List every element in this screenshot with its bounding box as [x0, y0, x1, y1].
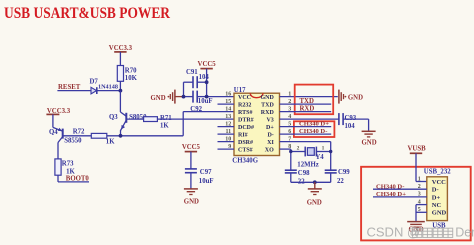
svg-text:RESET: RESET [58, 84, 81, 91]
capacitor C92 10uF [184, 91, 213, 113]
capacitor C93 104 [339, 113, 357, 130]
svg-text:USB_232: USB_232 [424, 169, 451, 176]
wire pin5 D+ [280, 126, 332, 128]
wire pins 4-5 to gnd [415, 205, 417, 222]
wire node to Q3 collector [119, 91, 121, 112]
wire VUSB to pin1 [415, 153, 417, 181]
svg-text:14: 14 [225, 106, 231, 112]
U17 pin 11 RI# (left) [218, 129, 248, 139]
svg-text:D-: D- [267, 132, 273, 138]
svg-text:RXD: RXD [261, 110, 275, 116]
power VCC3.3 (top) [109, 45, 133, 52]
transistor Q3 S8050 [109, 112, 147, 136]
svg-text:RI#: RI# [238, 132, 248, 138]
svg-text:CH340 D-: CH340 D- [299, 128, 327, 135]
svg-text:GND: GND [362, 140, 377, 147]
U17 pin 8 XO (right) [265, 144, 292, 154]
ground (crystal) [307, 182, 322, 206]
svg-text:1K: 1K [66, 168, 75, 175]
wire R71 to U17 pin13 DTR# [157, 118, 234, 120]
svg-text:VCC: VCC [238, 95, 251, 101]
svg-text:XO: XO [265, 147, 274, 153]
wire pin7 XI to crystal right [280, 141, 331, 143]
connector pin 2 D- [418, 184, 439, 194]
wire left rail C91-C92 [183, 82, 185, 96]
svg-text:DSR#: DSR# [238, 140, 253, 146]
svg-text:12MHz: 12MHz [297, 162, 319, 169]
resistor R73 [55, 159, 76, 176]
wire RESET to D7 [57, 90, 90, 92]
U17 pin 15 R232 (left) [218, 99, 252, 109]
crystal Y4 12MHz [291, 145, 331, 168]
svg-text:CTS#: CTS# [238, 147, 253, 153]
wire VCC3.3 to Q4 emitter [52, 114, 54, 127]
svg-text:V3: V3 [266, 117, 273, 123]
wire pin16 VCC [207, 96, 234, 98]
svg-text:USB USART&USB POWER: USB USART&USB POWER [4, 5, 171, 22]
svg-text:VCC5: VCC5 [198, 61, 217, 68]
ground port (pin1) [339, 90, 363, 104]
svg-text:RXD: RXD [300, 106, 315, 113]
U17 pin 13 DTR# (left) [225, 114, 253, 124]
ground (C93) [362, 131, 377, 146]
junction crystal right [329, 150, 332, 153]
highlight box USB [361, 167, 471, 241]
junction Q3 emitter / R72 / RTS# [119, 134, 123, 138]
svg-text:D-: D- [432, 187, 439, 194]
wire pin4 V3 to C93 [280, 118, 339, 120]
resistor R70 [117, 66, 137, 82]
wire pin6 D- [280, 133, 332, 135]
connector pin 5 GND [416, 207, 447, 217]
svg-text:CH340 D+: CH340 D+ [376, 191, 406, 198]
highlight box TXD/RXD [295, 85, 334, 115]
svg-text:CH340 D+: CH340 D+ [299, 121, 329, 128]
svg-text:Y4: Y4 [315, 154, 324, 161]
U17 pin 12 DCD# (left) [218, 121, 255, 131]
capacitor C99 22 [325, 169, 351, 185]
svg-text:DTR#: DTR# [238, 117, 254, 123]
svg-text:104: 104 [345, 123, 356, 130]
svg-text:C99: C99 [338, 169, 350, 176]
wire C93 to GND [343, 118, 369, 120]
wire R70 to node [119, 81, 121, 90]
U17 pin 10 DSR# (left) [218, 136, 254, 146]
resistor R72 [73, 129, 115, 146]
wire pin2 CH340 D- [373, 188, 427, 190]
wire pin3 CH340 D+ [373, 196, 427, 198]
U17 pin 3 RXD (right) [261, 106, 292, 116]
svg-text:Q3: Q3 [109, 114, 118, 121]
svg-text:TXD: TXD [261, 102, 274, 108]
svg-text:10K: 10K [125, 75, 138, 82]
U17 pin 7 XI (right) [267, 136, 291, 146]
junction C92/rail/pin16 [205, 95, 209, 99]
junction C91/rail [205, 80, 209, 84]
wire pin3 RXD [280, 111, 332, 113]
svg-text:1K: 1K [106, 139, 115, 146]
power VCC3.3 (Q4) [46, 108, 70, 115]
wire C97 to gnd [190, 173, 192, 189]
svg-text:U17: U17 [234, 87, 246, 94]
svg-text:13: 13 [225, 114, 231, 120]
svg-text:R232: R232 [238, 102, 251, 108]
ground (USB shell) [407, 222, 425, 234]
U17 pin 9 CTS# (left) [218, 144, 253, 154]
capacitor C98 22 [285, 170, 310, 186]
svg-text:1: 1 [322, 145, 325, 151]
svg-text:R72: R72 [73, 129, 85, 136]
junction gnd rail [313, 180, 317, 184]
watermark CSDN [367, 225, 474, 240]
svg-text:CH340 D-: CH340 D- [376, 183, 404, 190]
connector pin 1 VCC [418, 176, 446, 186]
svg-text:GND: GND [307, 199, 322, 206]
wire Q3 base to R71 [126, 118, 143, 120]
svg-text:1N4148: 1N4148 [98, 84, 118, 91]
wires caps to gnd rail [290, 173, 292, 182]
highlight box CH340 D+/D- [294, 121, 335, 137]
svg-text:GND: GND [432, 210, 447, 217]
U17 pin 2 TXD (right) [261, 99, 291, 109]
connector pin 3 D+ [418, 192, 441, 202]
wire VCC3.3 to R70 [119, 52, 121, 66]
svg-text:GND: GND [184, 198, 199, 205]
junction crystal left [289, 150, 292, 153]
resistor R71 [144, 115, 173, 129]
svg-text:10uF: 10uF [198, 98, 213, 105]
svg-text:10uF: 10uF [199, 178, 214, 185]
svg-text:RTS#: RTS# [238, 110, 252, 116]
svg-text:GND: GND [151, 95, 166, 102]
wire U17 pin14 RTS# jog down [183, 111, 234, 113]
svg-text:TXD: TXD [300, 98, 314, 105]
svg-text:DCD#: DCD# [238, 125, 254, 131]
power VCC5 (C97) [182, 144, 201, 151]
svg-text:22: 22 [337, 178, 344, 185]
svg-text:Der: Der [455, 226, 474, 240]
svg-text:16: 16 [225, 91, 231, 97]
wire pin2 TXD [280, 103, 332, 105]
svg-text:BOOT0: BOOT0 [66, 176, 90, 183]
wire D7 to node [97, 90, 121, 92]
svg-text:R73: R73 [62, 160, 74, 167]
svg-text:C98: C98 [298, 170, 310, 177]
diode D7 1N4148 [90, 79, 118, 94]
ground (C97) [184, 189, 199, 206]
power VCC5 (top) [198, 61, 217, 69]
wire pin8 XO to crystal left [280, 148, 291, 150]
U17 pin 4 V3 (right) [266, 114, 291, 124]
transistor Q4 S8550 [49, 127, 82, 158]
svg-text:1K: 1K [160, 122, 169, 129]
svg-text:VCC: VCC [432, 179, 446, 186]
U17 pin 1 GND (right) [260, 91, 291, 101]
connector J USB_232 body [424, 169, 451, 230]
capacitor C97 10uF [185, 152, 214, 185]
U17 pin 14 RTS# (left) [225, 106, 252, 116]
connector pin 4 NC [416, 199, 441, 209]
svg-text:VUSB: VUSB [408, 145, 427, 152]
svg-text:C92: C92 [190, 106, 202, 113]
junction C92/gnd rail [182, 95, 186, 99]
junction node RESET/R70/D7/Q3 [119, 89, 123, 93]
svg-text:1: 1 [418, 176, 421, 182]
U17 pin 16 VCC (left) [225, 91, 251, 101]
capacitor C91 104 [184, 69, 210, 88]
svg-text:2: 2 [297, 145, 300, 151]
svg-text:D+: D+ [266, 125, 274, 131]
svg-text:GND: GND [348, 95, 363, 102]
wire pin1 GND [280, 96, 338, 98]
svg-text:C97: C97 [200, 169, 212, 176]
power VUSB [408, 145, 427, 153]
wire R73 to BOOT0 [57, 175, 59, 182]
U17 pin 6 D- (right) [267, 129, 291, 139]
svg-text:104: 104 [199, 74, 210, 81]
U17 pin 5 D+ (right) [266, 121, 291, 131]
ground port (C91/C92) [151, 90, 184, 104]
svg-text:XI: XI [267, 140, 274, 146]
svg-text:Q4: Q4 [49, 129, 58, 136]
svg-text:S8550: S8550 [64, 137, 82, 144]
svg-text:R70: R70 [125, 68, 137, 75]
op-amp U17 CH340G body [232, 87, 279, 164]
svg-text:NC: NC [432, 202, 442, 209]
wire Q4 base to R72 [63, 135, 92, 137]
svg-text:D+: D+ [432, 194, 441, 201]
wire VCC5 rail down to pin16 [206, 69, 208, 97]
svg-text:CH340G: CH340G [232, 158, 258, 165]
svg-text:C91: C91 [186, 69, 198, 76]
svg-text:VCC5: VCC5 [182, 144, 201, 151]
svg-text:GND: GND [260, 95, 274, 101]
